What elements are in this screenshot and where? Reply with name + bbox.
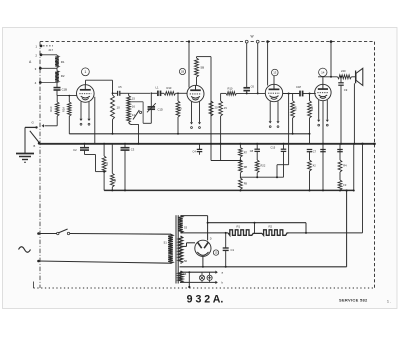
wire AC upper — [70, 233, 171, 236]
svg-text:10: 10 — [117, 106, 121, 110]
band switch arm — [133, 110, 139, 120]
capacitor C2 — [73, 143, 104, 172]
svg-text:3B: 3B — [113, 178, 117, 181]
wire heater a — [180, 271, 224, 275]
chassis border bottom dashed — [34, 282, 375, 289]
caption page number — [387, 300, 391, 304]
svg-text:R1: R1 — [61, 60, 65, 64]
tube V1 plate wire — [86, 80, 113, 85]
wire V4 center pin — [322, 101, 324, 145]
bus B-plus lower line — [104, 189, 354, 191]
svg-text:C9: C9 — [344, 88, 348, 92]
resistor R10 — [226, 86, 236, 95]
svg-text:R22: R22 — [261, 164, 266, 168]
resistor 240 output — [338, 69, 352, 79]
svg-text:R19: R19 — [294, 106, 298, 111]
resistor 3B — [110, 144, 116, 192]
wire feed — [268, 42, 274, 86]
caption SERVICE 582 — [339, 298, 368, 303]
terminal on border — [256, 40, 259, 43]
capacitor C3 — [121, 143, 135, 192]
coil bottom wire — [129, 123, 140, 145]
wire AC lower — [39, 261, 172, 263]
svg-text:C3: C3 — [131, 148, 135, 152]
capacitor C1 electrolytic — [223, 232, 235, 267]
capacitor C4 — [193, 144, 203, 155]
svg-text:C15: C15 — [270, 146, 275, 150]
resistor 4D — [176, 92, 183, 134]
wire heater b — [180, 281, 224, 285]
capacitor C1B — [54, 88, 68, 92]
tube V1 cathode leads — [79, 102, 90, 126]
AC source — [19, 247, 31, 253]
label 217 — [49, 48, 54, 52]
caption 932A — [187, 294, 224, 306]
svg-text:C6: C6 — [251, 84, 255, 88]
svg-text:R13: R13 — [167, 86, 172, 90]
capacitor C5 — [112, 85, 129, 96]
tube V3 designator — [272, 69, 279, 76]
wire rectifier cathode — [202, 256, 204, 266]
tube V4 cathode leads — [317, 100, 329, 126]
chassis border top dashed — [40, 41, 375, 43]
wire — [351, 76, 356, 78]
junction on border — [266, 40, 269, 43]
svg-text:C1: C1 — [231, 248, 235, 252]
wire — [56, 83, 58, 88]
svg-text:1 .: 1 . — [387, 300, 391, 304]
label A — [29, 60, 32, 64]
capacitor C7 — [307, 144, 317, 154]
svg-text:240: 240 — [341, 69, 346, 73]
wire arrow to ground lug — [42, 124, 58, 127]
wire B-plus line right — [289, 232, 363, 234]
wire chassis drop — [188, 272, 190, 288]
wire drop — [353, 144, 355, 192]
transformer core — [176, 215, 178, 283]
resistor 10 (V1 plate) — [111, 80, 121, 135]
wire osc row — [211, 160, 240, 162]
svg-text:9 3 2 A.: 9 3 2 A. — [187, 294, 224, 306]
resistor R4 and F3 — [337, 144, 347, 192]
wire field vertical — [346, 189, 348, 266]
capacitor C9 — [338, 76, 347, 145]
tube V2 grid-cap wire — [188, 40, 190, 87]
AC terminal lower — [37, 260, 40, 263]
svg-text:53: 53 — [184, 225, 188, 229]
svg-text:R8: R8 — [244, 165, 248, 169]
AC terminal upper — [37, 232, 40, 235]
svg-text:C1D: C1D — [158, 108, 163, 112]
svg-text:C2: C2 — [73, 148, 77, 152]
terminal G — [32, 121, 38, 129]
resistor chain R7 R8 R9 — [239, 143, 248, 192]
wire AVC from R1A — [68, 116, 70, 134]
svg-text:R2: R2 — [61, 74, 65, 78]
resistor 19 — [291, 94, 298, 135]
terminal on border — [245, 40, 248, 43]
svg-text:51: 51 — [164, 240, 168, 244]
wire — [236, 92, 265, 94]
svg-text:4D: 4D — [179, 107, 183, 110]
resistor R20 — [308, 93, 315, 144]
tube V1 grid wire — [0, 0, 1, 1]
pilot lamp — [199, 272, 204, 282]
svg-text:B: B — [34, 144, 36, 148]
wire divider row — [240, 94, 288, 179]
switch arm to bus — [30, 131, 41, 148]
svg-text:217: 217 — [49, 48, 54, 52]
wire speaker return — [353, 83, 355, 145]
tube V2 cathode leads — [190, 102, 201, 129]
svg-text:R1: R1 — [237, 224, 241, 228]
wire grid row — [129, 92, 150, 94]
svg-text:D: D — [210, 238, 212, 241]
wire to ground — [25, 127, 37, 153]
terminal 3 — [35, 67, 57, 71]
tube V1 — [77, 85, 95, 103]
svg-text:13: 13 — [273, 71, 277, 75]
capacitor C15 — [270, 143, 286, 177]
resistor R1A — [61, 96, 71, 116]
svg-text:C1B: C1B — [62, 88, 68, 92]
transformer secondary 53 — [178, 216, 187, 233]
capacitor C8 and resistor R22 — [250, 143, 266, 177]
tube V3 cathode leads — [269, 101, 280, 127]
wire — [56, 90, 58, 96]
svg-text:C8: C8 — [250, 149, 254, 153]
svg-text:R20: R20 — [310, 106, 314, 111]
resistor R13 — [164, 86, 187, 95]
chassis border left dash-dot — [39, 42, 41, 288]
loudspeaker — [356, 68, 363, 85]
capacitor C6 — [243, 84, 254, 93]
tube V5 rectifier — [195, 238, 212, 257]
tube V4 designator — [319, 68, 327, 76]
wire V1 cathode to chassis — [94, 97, 96, 144]
svg-text:R1A: R1A — [61, 107, 65, 112]
svg-text:L1: L1 — [156, 86, 159, 90]
svg-text:C1P: C1P — [296, 85, 301, 89]
tube V5 designator — [213, 250, 218, 255]
svg-text:1: 1 — [84, 70, 86, 74]
svg-text:5B: 5B — [201, 66, 205, 70]
wire B feed drop — [361, 143, 363, 233]
label W — [251, 35, 254, 39]
resistor 3A — [102, 143, 109, 191]
svg-text:50: 50 — [184, 259, 188, 263]
wire B-plus from 53 — [181, 232, 183, 234]
wire plate drop — [210, 57, 212, 161]
svg-text:SERVICE 582: SERVICE 582 — [339, 298, 368, 303]
svg-text:C4: C4 — [193, 149, 197, 153]
wire rectifier output upper — [208, 222, 306, 233]
tube V3 — [265, 84, 282, 101]
bus chassis line — [40, 143, 376, 146]
pilot lamp — [207, 272, 212, 282]
svg-text:20: 20 — [215, 106, 218, 110]
svg-text:15: 15 — [132, 97, 136, 101]
wire HV lead — [181, 216, 209, 241]
svg-text:1B: 1B — [181, 69, 184, 73]
mains switch — [39, 229, 70, 235]
coil R1 — [55, 55, 65, 68]
wire — [56, 67, 58, 70]
wire V3 grid row — [221, 92, 259, 94]
capacitor C1D — [143, 92, 163, 123]
bus AVC line — [69, 133, 309, 135]
transformer secondary 50 — [178, 236, 187, 263]
svg-text:R1C: R1C — [49, 106, 53, 111]
wire feed — [257, 43, 259, 93]
chassis border right dashed — [374, 42, 376, 288]
tube V1 designator — [82, 68, 90, 76]
resistor R1 tone — [228, 224, 262, 235]
svg-text:3A: 3A — [105, 162, 109, 165]
ground — [16, 154, 34, 163]
svg-text:16: 16 — [132, 105, 136, 109]
wire rectifier filament — [181, 243, 196, 247]
svg-text:R4: R4 — [343, 164, 347, 168]
terminal 2 — [35, 53, 57, 57]
wire field coil return — [180, 266, 347, 268]
terminal 1 — [35, 44, 53, 48]
resistor 5B — [195, 57, 212, 86]
svg-text:W: W — [251, 35, 254, 39]
wire V3 plate — [283, 93, 300, 95]
resistor R2 tone — [262, 224, 289, 235]
svg-text:C5: C5 — [118, 85, 122, 89]
tube V2 — [187, 85, 204, 102]
wire feed — [246, 43, 248, 88]
resistor 42 — [308, 152, 317, 192]
coil L15 tapped — [127, 93, 136, 122]
capacitor L1 series — [151, 86, 164, 96]
transformer primary 51 — [164, 234, 173, 263]
coil R2 — [55, 71, 65, 83]
svg-text:14: 14 — [321, 70, 325, 74]
tube V2 designator — [179, 68, 185, 74]
wire B-plus line — [181, 232, 229, 234]
transformer heater winding 54 — [178, 271, 186, 282]
coil tap wire — [129, 102, 144, 124]
resistor R1C — [49, 96, 59, 116]
terminal 4 — [35, 81, 57, 85]
wire screen drop — [219, 93, 228, 160]
wire V4 plate to output — [318, 77, 338, 85]
svg-text:R10: R10 — [228, 86, 233, 90]
svg-text:R7: R7 — [244, 151, 248, 155]
resistor R5B — [209, 101, 218, 116]
wire feed from border — [330, 40, 333, 78]
tube V4 — [315, 84, 331, 100]
wire grid junction — [57, 95, 77, 97]
svg-text:R9: R9 — [244, 182, 248, 186]
svg-text:C7: C7 — [313, 150, 317, 154]
wire — [56, 116, 58, 126]
svg-text:R2: R2 — [269, 224, 273, 228]
wire drop — [320, 144, 326, 192]
capacitor C1P — [296, 85, 316, 97]
